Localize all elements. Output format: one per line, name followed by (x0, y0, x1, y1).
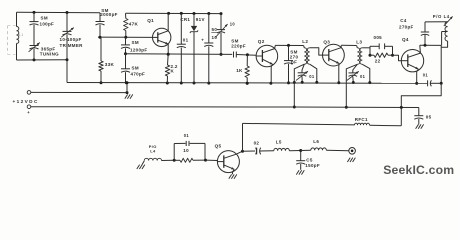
svg-text:L4: L4 (150, 148, 156, 153)
svg-text:+: + (27, 110, 30, 115)
svg-text:10: 10 (212, 35, 218, 40)
svg-text:270pF: 270pF (399, 25, 414, 30)
svg-text:02: 02 (254, 140, 260, 145)
svg-text:01: 01 (309, 74, 315, 79)
svg-text:10-100pF: 10-100pF (60, 37, 82, 42)
svg-text:01: 01 (360, 74, 366, 79)
svg-text:K: K (171, 68, 175, 73)
svg-text:470pF: 470pF (131, 71, 146, 76)
svg-text:L6: L6 (313, 139, 319, 144)
svg-text:pF: pF (291, 60, 297, 65)
svg-text:Q4: Q4 (402, 37, 409, 42)
svg-text:SM: SM (132, 65, 139, 70)
svg-text:05: 05 (426, 114, 432, 119)
svg-text:+12VDC: +12VDC (13, 99, 39, 104)
svg-text:01: 01 (183, 38, 189, 43)
svg-text:SM: SM (132, 40, 139, 45)
svg-text:TRIMMER: TRIMMER (60, 43, 84, 48)
svg-text:P/O L4: P/O L4 (433, 14, 450, 19)
svg-text:L2: L2 (302, 39, 308, 44)
svg-text:33K: 33K (105, 62, 115, 67)
svg-text:10: 10 (230, 22, 236, 27)
svg-text:2000pF: 2000pF (100, 12, 117, 17)
svg-text:L1: L1 (19, 33, 24, 37)
svg-text:L5: L5 (276, 139, 282, 144)
svg-text:47K: 47K (129, 22, 139, 27)
svg-text:Q2: Q2 (258, 39, 265, 44)
svg-text:10: 10 (183, 148, 189, 153)
svg-text:Q5: Q5 (215, 144, 222, 149)
svg-text:SM: SM (41, 15, 48, 20)
svg-text:220pF: 220pF (231, 43, 246, 48)
svg-text:91V: 91V (196, 17, 205, 22)
svg-text:SeekIC.com: SeekIC.com (383, 163, 454, 177)
svg-text:L3: L3 (356, 40, 362, 45)
svg-text:CR1: CR1 (180, 17, 190, 22)
svg-text:RFC1: RFC1 (355, 117, 368, 122)
svg-text:150pF: 150pF (305, 163, 320, 168)
svg-text:01: 01 (184, 133, 190, 138)
svg-text:01: 01 (423, 72, 429, 77)
svg-text:TUNING: TUNING (40, 52, 59, 57)
svg-text:Q1: Q1 (147, 18, 154, 23)
svg-text:1K: 1K (236, 68, 243, 73)
svg-text:1200pF: 1200pF (130, 48, 147, 53)
svg-text:+: + (201, 37, 204, 42)
svg-text:C5: C5 (306, 157, 313, 162)
svg-text:50: 50 (212, 27, 218, 32)
svg-text:005: 005 (374, 35, 383, 40)
svg-text:Q3: Q3 (323, 39, 330, 44)
svg-text:22: 22 (375, 59, 381, 64)
svg-text:C4: C4 (400, 18, 407, 23)
svg-text:100pF: 100pF (40, 21, 55, 26)
